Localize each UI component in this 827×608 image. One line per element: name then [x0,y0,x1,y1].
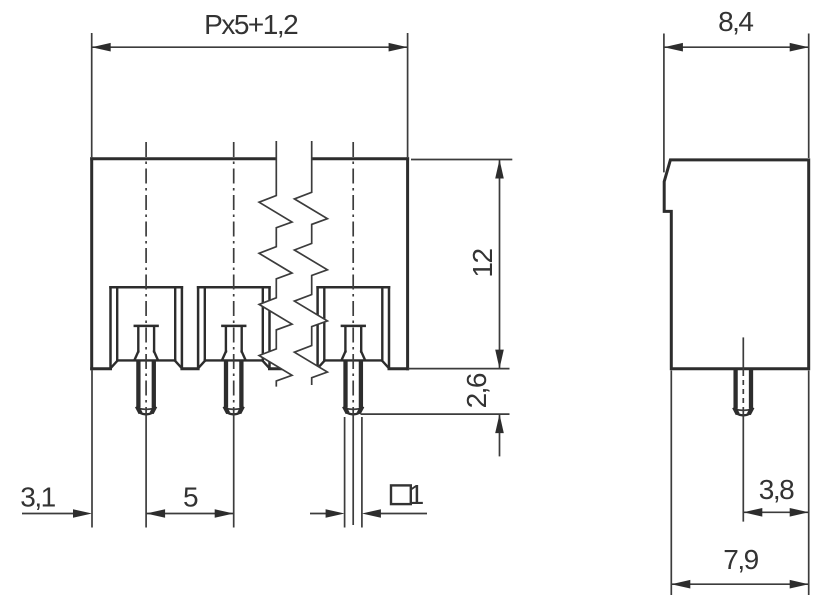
dimension 3,1 [20,370,92,527]
dimension 2,6 [361,369,510,457]
centerline pin 3 [352,142,354,414]
solder pin 2 [225,362,243,415]
socket 2 [198,287,269,369]
svg-text:12: 12 [467,249,498,278]
socket 3 [318,287,389,369]
solder pin side view [734,370,752,415]
solder pin 1 [137,362,155,415]
dimension 3,8 [743,371,808,596]
housing body side view [664,160,809,369]
socket 1 [111,287,182,369]
contact 1 [135,326,158,360]
dimension 12 [411,160,512,369]
centerline pin side view [742,337,744,371]
housing body front view [92,159,408,369]
break line left [259,141,292,387]
svg-text:7,9: 7,9 [723,544,758,575]
dimension 8,4 [664,6,809,172]
break line right [294,141,327,385]
contact 3 [342,326,365,360]
dimension Px5+1,2 [92,9,408,157]
svg-text:8,4: 8,4 [718,6,753,37]
dimension square-1 (pin cross-section) [310,417,427,528]
break-out white gap between break lines [259,141,327,387]
svg-text:Px5+1,2: Px5+1,2 [204,9,298,40]
dimension 5 [146,482,234,518]
svg-text:3,8: 3,8 [759,474,794,505]
svg-text:2,6: 2,6 [461,373,492,408]
dimension 7,9 [671,371,808,596]
svg-text:1: 1 [409,479,424,510]
svg-text:5: 5 [183,482,198,513]
svg-text:3,1: 3,1 [20,482,55,513]
solder pin 3 [344,362,362,415]
centerline pin 1 [145,142,147,414]
centerline pin 2 [233,142,235,414]
contact 2 [222,326,245,360]
